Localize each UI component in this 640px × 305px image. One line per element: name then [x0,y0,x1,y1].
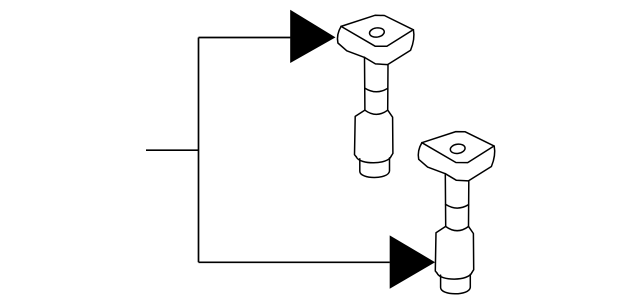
leader stub [146,149,199,151]
arrow 1 [290,10,335,63]
arrow 2 [390,235,435,288]
bracket vertical [198,38,200,263]
bolt 1 [337,15,413,177]
bottom leader line [199,261,390,263]
top leader line [199,37,291,39]
bolt 2 [418,132,494,294]
